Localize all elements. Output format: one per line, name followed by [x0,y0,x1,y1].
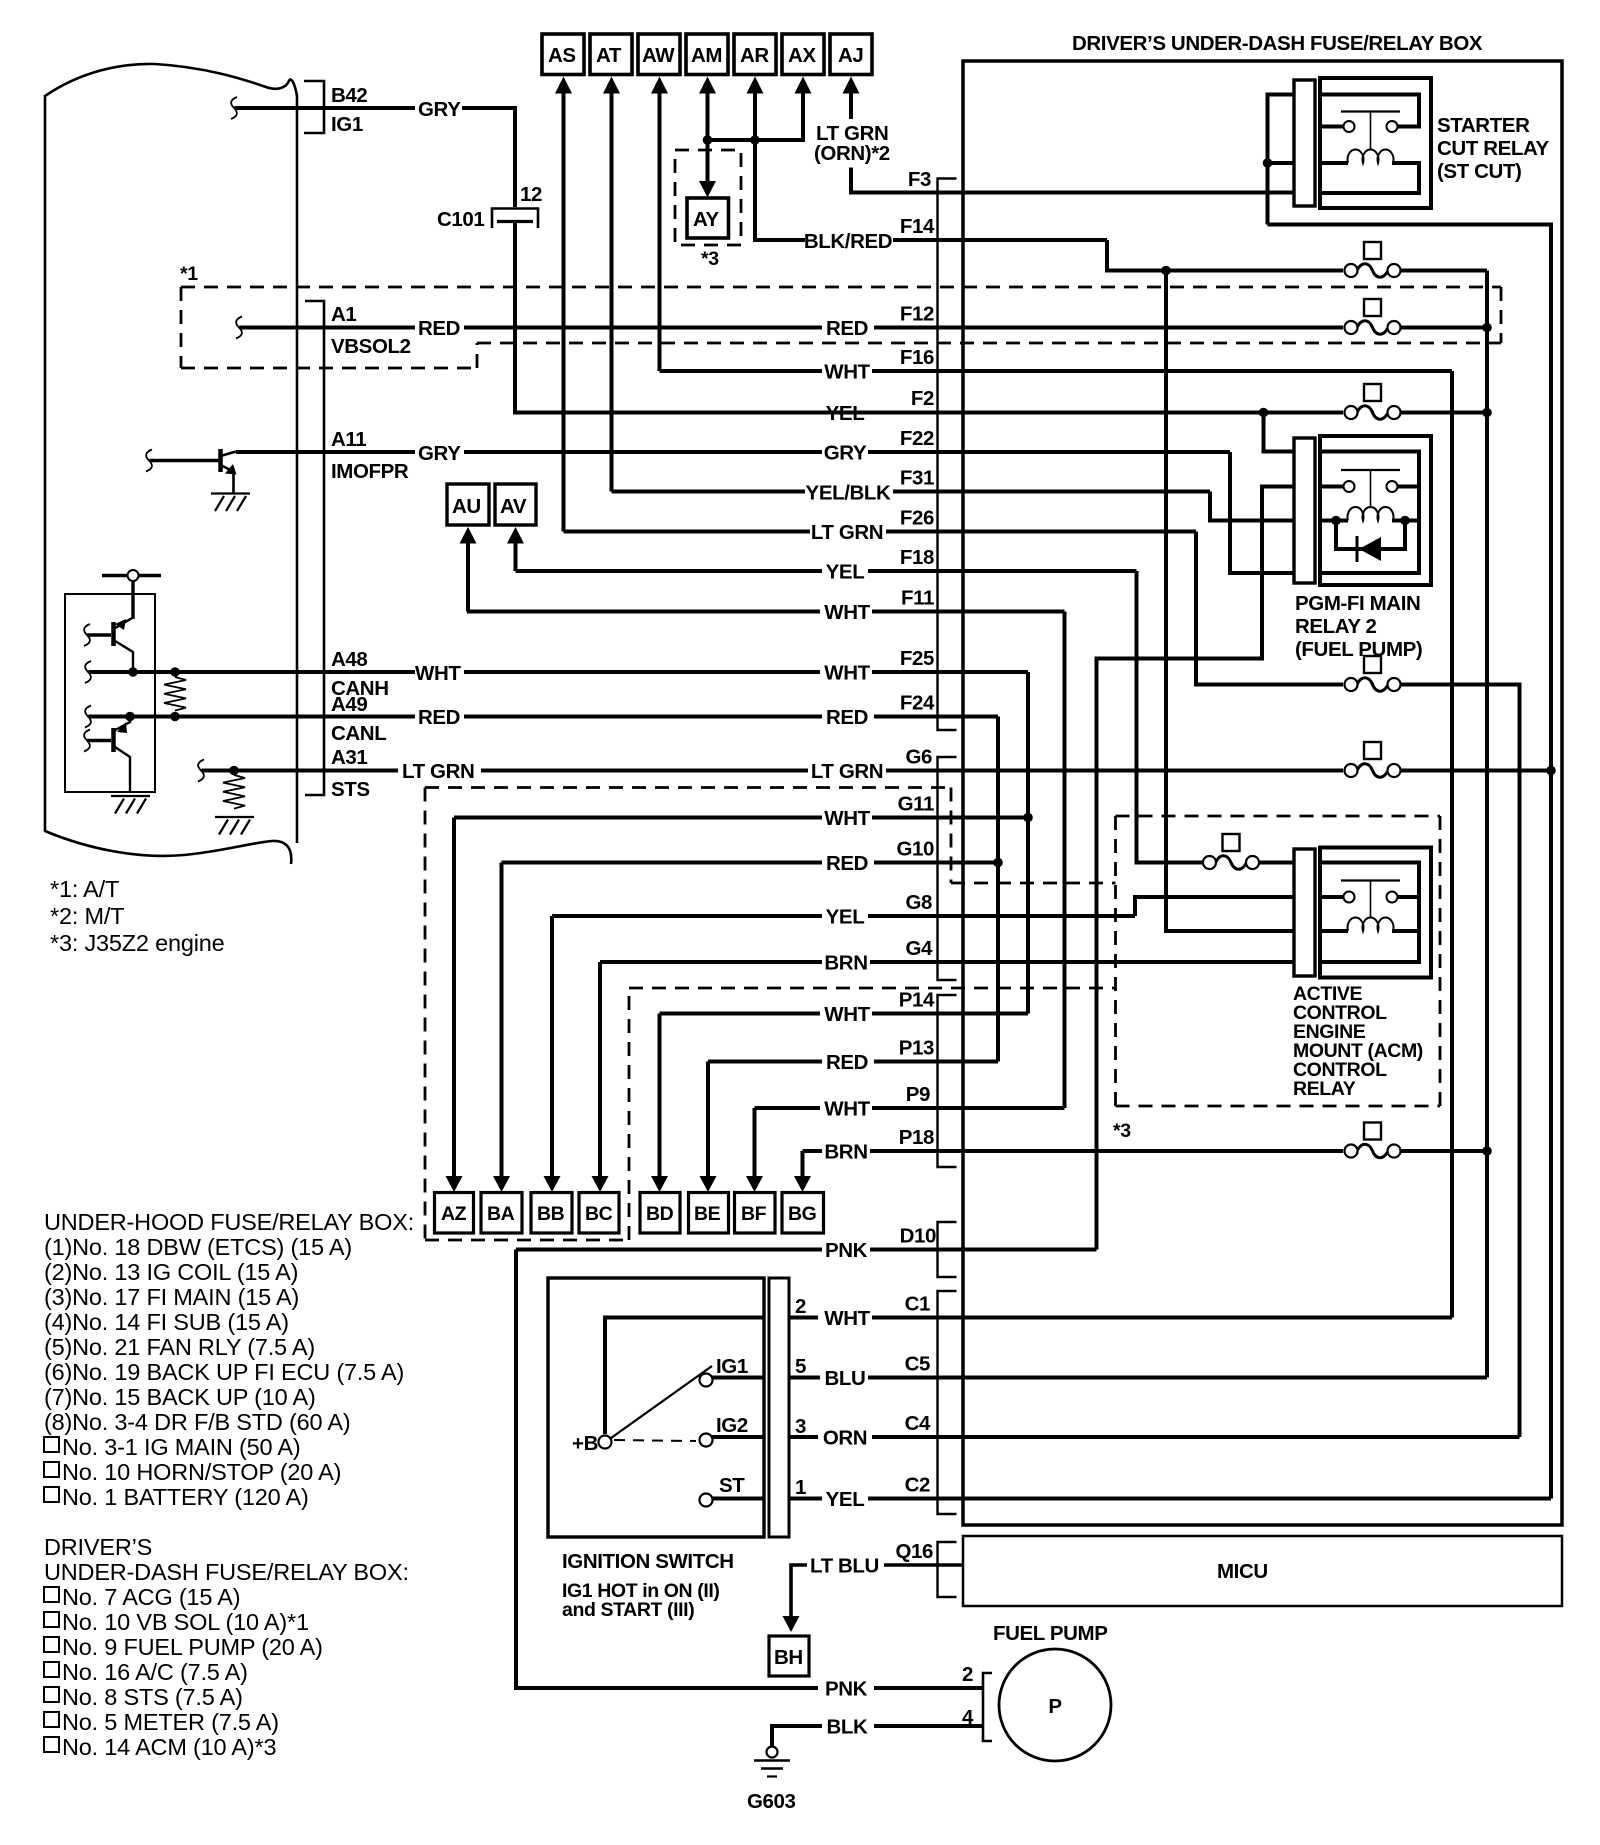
wire BG corner to BRN P18 [803,1149,823,1153]
connector box AS [542,34,584,75]
svg-text:A31: A31 [331,746,367,769]
svg-text:2: 2 [795,1295,806,1318]
svg-text:AU: AU [452,495,481,518]
junction AR link [750,135,760,145]
svg-text:YEL: YEL [826,561,865,584]
wire BC corner to BRN G4 [600,960,822,964]
svg-text:IMOFPR: IMOFPR [331,460,409,483]
wire BE corner to RED P13 [708,1060,822,1064]
arrow into AT [603,77,620,94]
svg-text:AZ: AZ [441,1203,467,1225]
svg-text:BD: BD [646,1203,674,1225]
PGM relay flyback diode [1357,536,1381,562]
fuse No.9 FUEL PUMP (F14 row) [1345,242,1401,277]
squiggle Q3 base [84,730,90,752]
ACM control relay box [1320,848,1431,978]
label A31 / STS [331,746,370,801]
pin bracket group C1-C2 [938,1291,957,1514]
svg-text:G6: G6 [905,746,932,769]
PGM-FI main relay 2 box [1320,436,1431,585]
svg-text:RELAY: RELAY [1293,1078,1356,1100]
label PGM-FI MAIN RELAY 2 (FUEL PUMP) [1295,592,1422,661]
svg-text:(8)No. 3-4 DR F/B STD (60 A): (8)No. 3-4 DR F/B STD (60 A) [44,1409,351,1435]
A31 pulldown resistor [223,775,245,809]
label P9 + WHT [824,1083,930,1121]
wire AM-AR-AX link [708,138,804,142]
wire YEL/BLK to F31 pin [893,490,1210,494]
svg-text:IG2: IG2 [716,1414,748,1437]
dashed box *1 (A/T option) around A1 VBSOL2 and F12 circuit [181,287,1501,368]
fuel pump circle [999,1649,1111,1761]
label B42 / IG1 [331,84,367,136]
junction resistor top [170,667,180,677]
wire YEL to F18 pin [868,569,1137,573]
svg-text:LT BLU: LT BLU [810,1555,879,1578]
wire YEL to G8 pin [868,914,1135,918]
wire AM to AY [706,140,710,183]
junction A31 pulldown [229,766,239,776]
arrow into AR [747,77,764,94]
svg-text:WHT: WHT [415,662,461,685]
svg-text:P14: P14 [899,989,935,1012]
label F26 + LT GRN [811,507,934,545]
connector box BD with down arrow [640,1014,680,1234]
label F14 + BLK/RED [804,215,935,253]
svg-text:No. 5 METER (7.5 A): No. 5 METER (7.5 A) [62,1709,279,1735]
svg-text:No. 7 ACG (15 A): No. 7 ACG (15 A) [62,1584,240,1610]
svg-text:F2: F2 [911,387,934,410]
transistor Q1 (IMOFPR driver) [221,449,237,493]
wire P18 fuse to bus [1401,1149,1488,1153]
label G8 + YEL [826,891,932,929]
IG2 contact [700,1414,765,1447]
wire GRY F22 to PGM relay coil return [1230,452,1294,573]
junction AM link [703,135,713,145]
label F16 + WHT [824,346,934,384]
svg-text:BA: BA [487,1203,515,1225]
junction PGM coil left [1331,516,1341,526]
junction starter relay coil feed [1263,158,1273,168]
squiggle A1 [236,317,242,339]
wire AT stem to YEL/BLK F31 row [610,92,614,492]
svg-text:and START (III): and START (III) [562,1599,694,1621]
fuse No.14 ACM (G10 row) [1203,834,1259,869]
label F31 + YEL/BLK [806,467,934,505]
wire A48 pin lead [88,670,415,674]
wire A48 WHT to F25 [464,670,820,674]
connector box BC with down arrow [579,962,619,1233]
wire fuse to IG1 bus [1401,269,1488,273]
svg-text:DRIVER’S: DRIVER’S [44,1534,152,1560]
svg-text:No. 9 FUEL PUMP (20 A): No. 9 FUEL PUMP (20 A) [62,1634,323,1660]
wire BLK from ground [772,1726,983,1746]
junction G11 on F25 vertical [1023,813,1033,823]
wire BLK/RED to F14 pin [893,238,1107,242]
svg-text:*1: *1 [180,263,198,285]
label A11 / IMOFPR [331,428,409,483]
dashed box around AY (*3 option) [675,150,741,245]
junction resistor bottom [170,712,180,722]
transistor Q3 (CAN low) [114,717,131,793]
svg-text:(6)No. 19 BACK UP FI ECU (7.5: (6)No. 19 BACK UP FI ECU (7.5 A) [44,1359,404,1385]
wire A49 RED to F24 [464,715,822,719]
svg-text:B42: B42 [331,84,367,107]
svg-text:LT GRN: LT GRN [811,760,883,783]
wire BLK/RED vertical to ACM coil [1166,271,1294,932]
wire YEL/BLK F31 to PGM relay coil [1210,492,1294,521]
wire AS to LT GRN F26 [564,530,811,534]
wire AJ stem upper [849,92,853,119]
svg-text:RELAY 2: RELAY 2 [1295,615,1377,638]
svg-text:F3: F3 [908,168,931,191]
svg-text:G603: G603 [747,1790,796,1813]
wire A11 GRY to F22 [464,450,822,454]
svg-text:G4: G4 [905,937,933,960]
fuel pump connector bracket [983,1673,992,1741]
wire AV to YEL F18 [516,569,823,573]
wire LT GRN to G6 pin [886,769,1343,773]
ground at A31 resistor [215,817,254,835]
connector box AR [734,34,776,75]
svg-text:RED: RED [826,317,868,340]
svg-text:C101: C101 [437,208,484,231]
wire A31 pin lead [201,769,398,773]
arrow into AS [555,77,572,94]
wire ACM fuse to relay contact bus [1259,861,1294,865]
svg-text:F16: F16 [900,346,934,369]
label IG1 HOT in ON (II) and START (III) [562,1580,719,1621]
svg-text:F25: F25 [900,647,934,670]
junction G6 on ST vertical [1546,766,1556,776]
junction F12 on bus [1482,323,1492,333]
pin bracket B42 [304,81,324,133]
connector box AJ [830,34,872,75]
svg-text:RED: RED [418,317,460,340]
svg-text:F14: F14 [900,215,935,238]
Q2 collector arrowhead [115,619,126,630]
label F18 + YEL [826,546,934,584]
wire IG1 hot bus vertical [1485,271,1489,1378]
wire A1 RED to F12 [464,326,822,330]
wire WHT F11 vertical to P9 [1063,612,1067,1109]
pin bracket group P14-P18 [938,995,957,1167]
svg-text:G11: G11 [898,793,934,816]
fuse No.10 VB SOL (F12 row) [1345,299,1401,334]
svg-text:PNK: PNK [825,1239,868,1262]
junction F14 branch to ACM coil [1161,266,1171,276]
svg-text:WHT: WHT [824,361,870,384]
svg-text:*3: *3 [1113,1120,1131,1142]
arrow into AM [699,77,716,94]
svg-text:WHT: WHT [824,601,870,624]
transistor Q1 base lead [149,459,219,463]
ignition switch connector [769,1278,789,1537]
svg-text:+B: +B [572,1432,598,1455]
starter cut relay box [1320,78,1431,208]
ECM/PCM torn-edge outline [45,64,297,864]
wire PNK from D10 to fuel pump feed drop [516,1248,822,1252]
svg-text:FUEL PUMP: FUEL PUMP [993,1622,1107,1645]
svg-text:A49: A49 [331,693,367,716]
svg-text:IG1: IG1 [331,113,363,136]
wire YEL F18 down to ACM fuse [1137,571,1204,863]
wire C1 row inside box [872,1316,1452,1320]
svg-text:P: P [1048,1695,1061,1718]
svg-text:ST: ST [719,1474,745,1497]
wire BB corner to YEL G8 [552,914,822,918]
svg-text:AW: AW [642,44,675,67]
wire G8 jog to ACM contact [1135,897,1294,916]
wire AS stem to LT GRN F26 row [562,92,566,532]
svg-text:IG1: IG1 [716,1355,748,1378]
squiggle Q2 base [84,624,90,646]
label G4 + BRN [824,937,933,975]
wire WHT to P9 pin [872,1106,1065,1110]
svg-text:LT GRN: LT GRN [811,521,883,544]
label P14 + WHT [824,989,935,1027]
svg-text:5: 5 [795,1355,806,1378]
label G10 + RED [826,838,934,876]
ACM control relay internals [1322,863,1419,963]
svg-text:BLU: BLU [825,1367,866,1390]
svg-text:UNDER-DASH FUSE/RELAY BOX:: UNDER-DASH FUSE/RELAY BOX: [44,1559,409,1585]
wire BD corner to WHT P14 [660,1012,821,1016]
junction F2 branch to PGM relay [1259,408,1269,418]
svg-text:BRN: BRN [824,952,867,975]
svg-text:(7)No. 15 BACK UP (10 A): (7)No. 15 BACK UP (10 A) [44,1384,316,1410]
svg-text:WHT: WHT [824,1098,870,1121]
wire LT GRN to F26 pin [886,530,1196,534]
wire LT GRN F26 down to C4 feed fuse [1196,532,1343,685]
transistor Q2 (CAN high) [114,618,134,673]
svg-text:A11: A11 [331,428,366,451]
svg-text:BE: BE [694,1203,721,1225]
arrow into AY [699,181,716,198]
squiggle B42 [231,97,237,119]
label F12 + RED [826,303,934,341]
ignition switch blade [611,1366,712,1438]
PGM-FI main relay 2 connector bar [1294,438,1315,583]
svg-text:LT GRN: LT GRN [402,760,474,783]
wire F14 jog down to fuse row [1107,240,1343,271]
svg-text:G10: G10 [896,838,934,861]
wire BRN to P18 pin [870,1149,1343,1153]
svg-text:(ST CUT): (ST CUT) [1437,160,1521,183]
svg-text:No. 3-1 IG MAIN (50 A): No. 3-1 IG MAIN (50 A) [62,1434,301,1460]
wire Q2 base [87,633,111,636]
svg-text:YEL: YEL [826,1488,865,1511]
svg-text:P13: P13 [899,1037,934,1060]
wire BA corner to RED G10 [502,861,823,865]
junction F2 on bus [1482,408,1492,418]
svg-text:(FUEL PUMP): (FUEL PUMP) [1295,638,1422,661]
svg-text:F11: F11 [901,587,934,610]
wire C5 row inside box [868,1376,1487,1380]
svg-text:WHT: WHT [824,807,870,830]
starter cut relay internals [1322,95,1419,194]
connector box AM [686,34,728,75]
svg-text:YEL/BLK: YEL/BLK [806,482,891,505]
svg-text:Q16: Q16 [895,1540,933,1563]
svg-text:2: 2 [962,1663,973,1686]
svg-text:RED: RED [418,706,460,729]
MICU box [963,1536,1562,1606]
under-hood fuse/relay box list [44,1209,414,1510]
svg-text:C1: C1 [905,1293,930,1316]
svg-text:IGNITION SWITCH: IGNITION SWITCH [562,1550,734,1573]
wire C2 row inside box [868,1497,1551,1501]
svg-text:AJ: AJ [838,44,863,67]
wire +B feed riser [605,1318,764,1435]
wire RED to P13 pin [874,1060,998,1064]
svg-text:*1: A/T: *1: A/T [50,876,119,902]
svg-text:AM: AM [691,44,722,67]
wire PGM relay contact output [1097,487,1295,1250]
pin bracket group F3-F24 [938,179,957,731]
wire LT BLU corner to Q16 [791,1565,963,1618]
svg-text:BB: BB [537,1203,565,1225]
wire F26 fuse to C4 drop [1401,685,1520,1438]
label P13 + RED [826,1037,934,1075]
svg-text:WHT: WHT [824,662,870,685]
wire AZ corner to WHT G11 [454,816,822,820]
wire WHT F25 vertical to P14 [1026,672,1030,1014]
svg-text:AV: AV [500,495,527,518]
svg-text:*3: J35Z2 engine: *3: J35Z2 engine [50,930,225,956]
svg-text:(5)No. 21 FAN RLY (7.5 A): (5)No. 21 FAN RLY (7.5 A) [44,1334,315,1360]
wire G6 fuse to ST vertical [1401,769,1552,773]
Q1 emitter arrowhead [225,464,237,475]
IG2 dashed blade [614,1440,696,1441]
svg-text:(2)No. 13 IG COIL (15 A): (2)No. 13 IG COIL (15 A) [44,1259,298,1285]
wire PNK to fuel pump pin 2 [874,1686,983,1690]
wire RED F24 vertical to P13 [996,717,1000,1062]
wire PNK fuel pump feed drop [516,1250,818,1689]
driver's under-dash fuse/relay box list [44,1534,409,1760]
driver's under-dash fuse/relay box outline [963,61,1562,1525]
svg-text:No. 8 STS (7.5 A): No. 8 STS (7.5 A) [62,1684,243,1710]
svg-text:No. 10 VB SOL (10 A)*1: No. 10 VB SOL (10 A)*1 [62,1609,309,1635]
svg-text:F24: F24 [900,692,935,715]
ground G603 [747,1747,796,1814]
CAN driver block box [65,594,155,792]
svg-text:P9: P9 [906,1083,930,1106]
svg-text:No. 1 BATTERY (120 A): No. 1 BATTERY (120 A) [62,1484,309,1510]
svg-text:*2: M/T: *2: M/T [50,903,124,929]
svg-text:UNDER-HOOD FUSE/RELAY BOX:: UNDER-HOOD FUSE/RELAY BOX: [44,1209,414,1235]
svg-text:BH: BH [774,1646,803,1669]
svg-text:4: 4 [962,1706,974,1729]
wire BRN to G4 pin (ACM coil return bus) [870,960,1294,964]
notes *1 A/T *2 M/T *3 J35Z2 engine [50,876,225,956]
svg-text:F18: F18 [900,546,934,569]
svg-text:D10: D10 [900,1225,936,1248]
label G6 + LT GRN [811,746,932,784]
label P18 + BRN [824,1126,934,1164]
connector box AZ with down arrow [435,818,474,1234]
starter cut relay external feed [1268,95,1295,225]
junction Q3 collector to A49 [125,712,135,722]
svg-text:AY: AY [693,208,720,231]
svg-text:PGM-FI MAIN: PGM-FI MAIN [1295,592,1420,615]
label F11 + WHT [824,587,934,625]
wire AW to WHT F16 [660,369,823,373]
svg-text:A1: A1 [331,303,356,326]
svg-text:RED: RED [826,852,868,875]
svg-text:F31: F31 [900,467,934,490]
label LT GRN (ORN)*2 on AJ wire [814,122,890,165]
wire RED to G10 pin [874,861,998,865]
label A49 / CANL [331,693,386,745]
svg-text:BF: BF [741,1203,767,1225]
label F2 + YEL [826,387,934,425]
label LT BLU + Q16 [810,1540,933,1578]
wire A31 LT GRN to G6 [481,769,808,773]
fuse No.8 STS (G6 row) [1345,742,1401,777]
svg-text:C2: C2 [905,1474,930,1497]
svg-text:BG: BG [788,1203,816,1225]
label D10 + PNK [825,1225,936,1263]
svg-text:VBSOL2: VBSOL2 [331,335,411,358]
connector box BA with down arrow [481,863,522,1234]
svg-text:WHT: WHT [824,1003,870,1026]
svg-text:AR: AR [740,44,769,67]
svg-text:C4: C4 [905,1412,931,1435]
svg-text:No. 14 ACM (10 A)*3: No. 14 ACM (10 A)*3 [62,1734,276,1760]
arrow into AW [651,77,668,94]
svg-text:BRN: BRN [824,1141,867,1164]
pin 5 wire to C5 [789,1353,930,1391]
PGM-FI main relay 2 internals [1322,452,1419,574]
arrow into AJ [843,77,860,94]
label ACTIVE CONTROL ENGINE MOUNT (ACM) CONTROL RELAY [1293,983,1423,1100]
pin bracket Q16 [938,1542,957,1597]
svg-text:GRY: GRY [418,442,461,465]
Q3 collector arrowhead [117,722,127,733]
pin 1 wire to C2 [789,1474,930,1512]
dashed box around middle connector bundle (AZ-BC group) [425,788,1116,1241]
squiggle A48 [85,661,91,683]
arrow into BH [783,1616,800,1632]
svg-text:No. 16 A/C (7.5 A): No. 16 A/C (7.5 A) [62,1659,248,1685]
label G11 + WHT [824,793,934,831]
arrow into AX [795,77,812,94]
wire WHT to F11 pin [872,610,1065,614]
squiggle A49 [85,706,91,728]
svg-text:ORN: ORN [823,1427,867,1450]
wire AT to YEL/BLK F31 [612,490,806,494]
wire WHT to F16 pin [872,369,1452,373]
CAN bus terminal bar [102,574,161,578]
svg-text:1: 1 [795,1476,806,1499]
svg-text:*3: *3 [701,248,719,270]
fuse No.5 METER (F26 row) [1345,656,1401,691]
ground at Q3 emitter [111,796,150,814]
wire GRY to F22 pin [868,450,1230,454]
svg-text:F26: F26 [900,507,934,530]
svg-text:BLK/RED: BLK/RED [804,230,892,253]
wire WHT to P14 pin [872,1012,1028,1016]
pin bracket group G6-G4 [938,757,957,980]
label A1 / VBSOL2 [331,303,411,358]
ignition switch box [548,1278,764,1537]
svg-text:BC: BC [585,1203,613,1225]
svg-text:F22: F22 [900,427,934,450]
tall pin bracket A1-A31 [305,301,324,795]
wire C101 down to YEL F2 row [515,222,963,413]
svg-text:CANL: CANL [331,722,386,745]
wire F2 branch to PGM-FI relay contact bus [1264,413,1295,452]
